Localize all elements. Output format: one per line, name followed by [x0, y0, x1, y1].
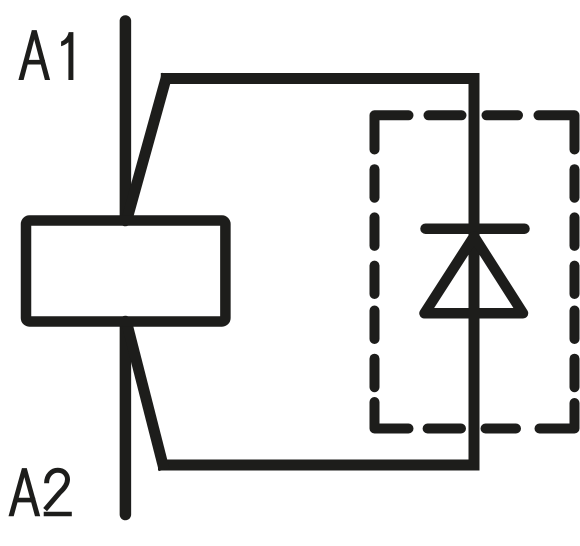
wire A2 lead (bottom vertical): [120, 322, 132, 515]
diode cathode bar: [426, 223, 525, 234]
suppressor module dashed enclosure: left edge dashes: [370, 169, 380, 387]
wire top horizontal: [161, 73, 474, 84]
wire right vertical (through suppressor module): [469, 73, 480, 471]
terminal label A2: [9, 468, 72, 516]
coil (contactor operating coil): [26, 221, 225, 322]
suppressor module dashed enclosure: top-left corner: [375, 115, 409, 149]
diode triangle (anode), apex up toward cathode: [425, 237, 524, 314]
terminal label A1: [18, 30, 73, 80]
suppressor module dashed enclosure: bottom-left corner: [375, 402, 409, 429]
suppressor module dashed enclosure: bottom-right corner: [540, 403, 575, 429]
wire bottom horizontal: [158, 460, 474, 471]
suppressor module dashed enclosure: top-right corner: [539, 115, 575, 149]
suppressor module dashed enclosure: right edge dashes: [570, 169, 580, 387]
wire top diagonal branch (from A1 junction up to top horizontal wire): [127, 74, 168, 221]
suppressor module dashed enclosure: top edge dashes: [429, 110, 519, 120]
wire bottom diagonal branch (from A2 junction down to bottom horizontal wire): [127, 322, 165, 470]
wire A1 lead (top vertical): [120, 21, 132, 221]
suppressor module dashed enclosure: bottom edge dashes: [428, 424, 516, 434]
